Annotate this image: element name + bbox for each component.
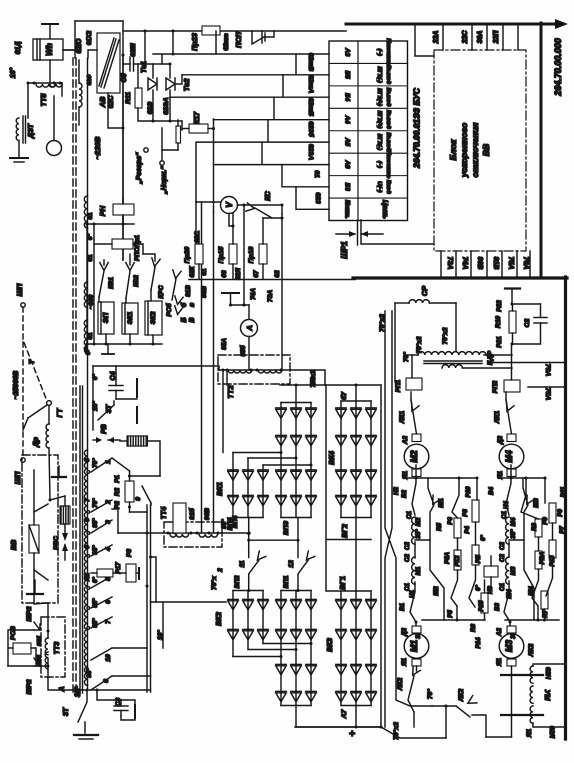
svg-text:Р5: Р5: [447, 610, 454, 618]
svg-text:62ЭА: 62ЭА: [163, 97, 170, 114]
svg-text:70°: 70°: [92, 498, 99, 508]
label Блок ускоренного отключения ВВ: [448, 123, 491, 179]
svg-text:70°х2: 70°х2: [441, 327, 449, 344]
svg-text:68: 68: [221, 270, 228, 278]
node row y344: [86, 224, 163, 346]
svg-text:90В: 90В: [204, 508, 211, 520]
svg-text:отключения: отключения: [470, 123, 480, 178]
svg-text:74А: 74А: [461, 257, 468, 270]
long verticals from ТТ2 to ТТ4: [202, 202, 214, 533]
svg-text:В1: В1: [399, 602, 406, 610]
svg-text:Ш4: Ш4: [506, 589, 513, 599]
disconnector ШП dashed: [13, 283, 47, 484]
wire down from АВ: [108, 55, 125, 260]
svg-text:Б3: Б3: [344, 183, 351, 192]
svg-text:62шг: 62шг: [223, 33, 230, 51]
svg-text:Блок: Блок: [448, 139, 458, 161]
svg-text:Б5: Б5: [344, 71, 351, 80]
svg-text:R11: R11: [125, 92, 132, 104]
svg-text:6°: 6°: [475, 585, 482, 591]
svg-text:61: 61: [201, 268, 208, 276]
svg-text:ЛК2: ЛК2: [397, 678, 404, 692]
svg-text:7: 7: [84, 498, 91, 502]
svg-text:2: 2: [217, 568, 224, 573]
svg-text:0: 0: [84, 545, 91, 549]
svg-text:ЛК1: ЛК1: [399, 411, 406, 425]
svg-text:91В: 91В: [492, 257, 499, 270]
svg-text:А6: А6: [344, 159, 351, 169]
terminal T-bar ВВ: [27, 580, 43, 594]
svg-text:ТТ5: ТТ5: [39, 93, 48, 107]
reactor БДР: [405, 350, 512, 368]
svg-text:ТТ4: ТТ4: [161, 507, 168, 520]
capacitor С5: [121, 43, 145, 83]
svg-text:61: 61: [313, 170, 320, 178]
resistor Р1 Р2: [112, 458, 160, 512]
svg-text:РВА: РВА: [539, 551, 546, 564]
svg-text:~220В: ~220В: [93, 136, 102, 159]
terminals 73А 74А 90В 91В 75А 76А: [441, 251, 530, 276]
svg-text:С1: С1: [499, 582, 506, 590]
ammeter А: [221, 293, 258, 370]
wire under ШР1 to block: [361, 220, 434, 244]
ground/terminal top-left: [42, 24, 58, 39]
resistor network block right (М4/М3): [499, 465, 559, 626]
svg-text:ВВ: ВВ: [481, 144, 491, 156]
svg-text:95б: 95б: [36, 636, 43, 646]
svg-text:11: 11: [239, 560, 246, 567]
svg-text:„Резерв“: „Резерв“: [136, 152, 143, 185]
svg-text:Пшошние: Пшошние: [385, 38, 391, 66]
coil СР: [395, 286, 456, 382]
svg-text:Р12: Р12: [454, 555, 461, 567]
svg-text:12: 12: [288, 560, 295, 568]
svg-text:62С: 62С: [108, 95, 115, 109]
svg-text:РСб: РСб: [165, 302, 173, 316]
label 70°х2 mid: [210, 568, 224, 590]
solid core pair: [80, 386, 83, 693]
svg-text:62С: 62С: [194, 231, 201, 243]
svg-text:ускоренного: ускоренного: [459, 123, 469, 178]
svg-text:30А: 30А: [477, 31, 484, 44]
relay РОВ: [8, 626, 48, 666]
svg-text:ПСП: ПСП: [234, 31, 243, 48]
svg-text:U(~): U(~): [376, 181, 382, 192]
terminal T near ВВ: [52, 466, 66, 477]
svg-text:ЛК2: ЛК2: [528, 643, 535, 657]
svg-text:Т: Т: [27, 359, 36, 364]
svg-text:РОВ: РОВ: [10, 626, 17, 640]
svg-text:R10: R10: [495, 316, 502, 328]
svg-text:Р7: Р7: [559, 526, 566, 534]
svg-text:Р17: Р17: [115, 562, 122, 574]
svg-text:62Ш: 62Ш: [130, 43, 137, 57]
capacitor С3: [97, 690, 135, 720]
svg-text:62шВ: 62шВ: [307, 53, 314, 72]
resistor Р17 Р3: [91, 509, 139, 582]
svg-text:Пшошние: Пшошние: [385, 151, 391, 179]
labels 76А 75А wires: [488, 363, 564, 401]
svg-text:ЛК1: ЛК1: [494, 411, 501, 425]
svg-text:БГ2(+): БГ2(+): [376, 111, 382, 129]
svg-text:Я1: Я1: [496, 657, 503, 667]
svg-text:(~): (~): [376, 161, 382, 168]
svg-text:4: 4: [105, 547, 112, 552]
svg-text:ГТ: ГТ: [55, 408, 64, 417]
svg-text:9: 9: [135, 497, 142, 501]
wires relay area verticals: [99, 254, 155, 303]
svg-text:Конт.: Конт.: [344, 200, 351, 219]
svg-text:95°: 95°: [92, 598, 99, 608]
svg-text:Выход: Выход: [385, 110, 391, 129]
wire y366: [93, 366, 219, 430]
svg-text:Вход: Вход: [385, 180, 391, 195]
svg-text:264.70.00.01ЭЗ БУС: 264.70.00.01ЭЗ БУС: [412, 87, 422, 169]
rectifier ВК3: [325, 540, 376, 728]
svg-text:С2: С2: [499, 541, 506, 549]
svg-text:6: 6: [84, 518, 91, 522]
transformer ТТ3: [41, 603, 65, 677]
label 70° bottom: [392, 689, 434, 740]
svg-text:ШР2: ШР2: [26, 679, 33, 694]
svg-text:УМ: УМ: [543, 689, 552, 701]
svg-text:61: 61: [87, 332, 94, 340]
wire ГТ and Др: [28, 401, 65, 502]
svg-text:Тг2: Тг2: [182, 78, 191, 92]
svg-text:С2: С2: [404, 541, 411, 549]
transformer ТТ4: [161, 503, 234, 547]
connector table БУС: [329, 38, 408, 220]
svg-text:Р10: Р10: [465, 486, 472, 498]
svg-text:ВП4: ВП4: [232, 515, 239, 528]
labels 62Э 62ЭА: [147, 97, 170, 114]
svg-text:Р13: Р13: [549, 555, 556, 567]
resistor R11: [125, 88, 142, 108]
svg-text:Wh: Wh: [45, 43, 54, 56]
svg-text:Р9: Р9: [557, 509, 564, 517]
svg-text:Пр23: Пр23: [190, 33, 199, 51]
svg-text:3: 3: [105, 520, 112, 524]
svg-text:Р3: Р3: [126, 549, 133, 558]
resistor К17: [189, 111, 208, 133]
svg-text:А2: А2: [402, 435, 409, 445]
wire: horizontal feeder y=278: [189, 278, 567, 280]
line y602 left: [151, 557, 227, 648]
svg-text:ВПЗ: ВПЗ: [283, 520, 290, 535]
switch КС: [246, 190, 282, 218]
svg-text:22А: 22А: [433, 31, 440, 45]
svg-text:ВП2: ВП2: [234, 575, 241, 588]
svg-text:А2: А2: [496, 627, 503, 636]
dashed bus pair: [73, 58, 76, 695]
svg-text:Пр20: Пр20: [184, 246, 191, 263]
svg-text:В3: В3: [494, 602, 501, 610]
svg-text:Р3: Р3: [462, 509, 469, 517]
wire from feeder down to block: [415, 24, 434, 56]
svg-text:М3: М3: [510, 566, 517, 575]
svg-text:8: 8: [84, 458, 91, 462]
svg-text:95°: 95°: [92, 618, 99, 628]
svg-text:РБ: РБ: [475, 554, 482, 563]
taps and blades lower winding: [84, 458, 112, 630]
svg-text:90В: 90В: [476, 257, 483, 270]
svg-text:ЛК2: ЛК2: [458, 689, 465, 703]
svg-text:22С: 22С: [462, 30, 469, 45]
svg-text:ЭК1: ЭК1: [127, 311, 134, 324]
svg-text:Выход: Выход: [385, 65, 391, 84]
wire: right feeder bus lower thick: [564, 277, 567, 739]
svg-text:ВГ2: ВГ2: [340, 524, 349, 538]
svg-text:ЗТ: ЗТ: [63, 707, 70, 716]
svg-text:РП2: РП2: [492, 380, 499, 393]
svg-text:75А: 75А: [544, 388, 551, 401]
rectifier ВК2: [214, 589, 313, 658]
svg-text:С1: С1: [404, 582, 411, 590]
svg-text:70°х: 70°х: [210, 576, 218, 590]
svg-text:6: 6: [105, 600, 112, 604]
label 6° and stub: [84, 344, 114, 355]
thyristor Тг1: [141, 61, 157, 90]
svg-text:Н1: Н1: [409, 589, 416, 597]
winding taps upper: [83, 196, 95, 353]
svg-text:ВВ: ВВ: [9, 540, 18, 551]
svg-text:Р11: Р11: [560, 486, 567, 497]
svg-text:ВК1: ВК1: [215, 482, 224, 496]
motor М4 with ЛК1 contact: [494, 392, 524, 480]
svg-text:С1: С1: [501, 510, 508, 518]
svg-text:Р22: Р22: [496, 300, 503, 312]
svg-text:67: 67: [253, 270, 260, 278]
labels 62шг ПСП: [223, 31, 243, 50]
wires rectifier top buses: [223, 370, 381, 453]
svg-text:91В: 91В: [185, 285, 192, 297]
svg-text:РПОПр1: РПОПр1: [134, 235, 141, 261]
labels resistor network right: [488, 486, 567, 639]
rectifier columns lower: [276, 591, 316, 728]
svg-text:264.70.00.000: 264.70.00.000: [553, 38, 563, 97]
svg-text:76А: 76А: [544, 364, 551, 377]
svg-text:Я1: Я1: [401, 657, 408, 667]
svg-text:в: в: [187, 302, 196, 307]
svg-text:РВ: РВ: [101, 424, 108, 434]
svg-text:62: 62: [274, 270, 281, 278]
svg-text:R7: R7: [542, 609, 549, 617]
wires around Wh and TT5 node row: [27, 50, 76, 118]
transformer ДЗТ: [10, 116, 35, 162]
wire: top feeder thick line with arrow: [346, 19, 568, 29]
switch ПСП: [252, 31, 274, 44]
wires К17 node: [162, 119, 215, 202]
contact К02: [126, 263, 140, 299]
svg-text:Р15: Р15: [478, 600, 485, 612]
svg-text:61Д: 61Д: [15, 42, 22, 55]
svg-text:АВ: АВ: [98, 96, 107, 108]
svg-text:ВГ1: ВГ1: [338, 576, 347, 590]
svg-text:Пр18: Пр18: [248, 246, 255, 263]
arrester box ВВ: [9, 455, 60, 603]
secondary winding lower: [84, 450, 87, 685]
svg-text:РП1: РП1: [395, 379, 402, 392]
brush bars: [501, 675, 543, 715]
svg-text:М1: М1: [409, 640, 419, 652]
resistor Р6 mid box: [484, 556, 498, 588]
svg-text:С1: С1: [406, 510, 413, 518]
terminals 22А 22С 30А 22П: [433, 25, 518, 50]
svg-text:Ш4: Ш4: [528, 586, 535, 596]
contacts Резерв Норм: [136, 148, 168, 195]
svg-text:10: 10: [105, 654, 112, 662]
rectifier columns ВПЗ upper: [232, 384, 316, 536]
svg-text:К01: К01: [108, 277, 115, 289]
rectifier ВК1: [215, 451, 313, 518]
svg-text:70°: 70°: [426, 689, 434, 700]
svg-text:(~): (~): [376, 49, 382, 56]
node row y224: [86, 223, 135, 241]
contactor box ЭК2: [145, 301, 162, 335]
rectifier ВК4: [326, 384, 376, 592]
resistor network block left (М2/М1): [404, 465, 488, 626]
svg-text:22П: 22П: [493, 30, 500, 45]
svg-text:70°х2: 70°х2: [415, 336, 423, 353]
motor М2 with ЛК1 contact: [399, 392, 429, 480]
svg-text:ВК2: ВК2: [214, 612, 223, 626]
thyristor Тг2: [166, 75, 191, 92]
relay РВ arrows: [93, 424, 120, 443]
contact ЛК2 left: [397, 676, 414, 727]
svg-text:62Ю: 62Ю: [76, 38, 83, 53]
wires staircase into table rows: [153, 31, 329, 209]
svg-text:ШП: ШП: [13, 471, 22, 484]
fuse Пр15: [218, 213, 237, 279]
svg-text:70°: 70°: [92, 458, 99, 468]
svg-text:35°: 35°: [415, 529, 422, 539]
svg-text:95А: 95А: [221, 338, 228, 350]
svg-text:+: +: [349, 728, 355, 740]
svg-text:ДЗТ: ДЗТ: [26, 123, 35, 139]
transformer ТТ2: [218, 355, 325, 399]
switch ЗТ bottom with ground: [63, 690, 151, 739]
connector ШР1 arrows: [336, 220, 383, 245]
svg-text:62шБ: 62шБ: [307, 98, 314, 117]
svg-text:РВС: РВС: [53, 536, 60, 550]
svg-text:Цепь: Цепь: [381, 200, 390, 220]
labels resistor network left: [393, 486, 494, 649]
svg-text:ШР2: ШР2: [26, 606, 33, 621]
svg-text:К02: К02: [133, 275, 140, 287]
label А7 plus: [341, 708, 358, 740]
svg-text:ВК4: ВК4: [327, 451, 336, 465]
svg-text:16°: 16°: [73, 687, 81, 698]
svg-text:Р14: Р14: [475, 637, 482, 649]
svg-text:ТТ3: ТТ3: [54, 642, 61, 655]
crossing wires to lower blocks: [295, 311, 446, 738]
svg-text:Выход: Выход: [385, 132, 391, 151]
svg-text:Н4: Н4: [503, 500, 510, 508]
svg-text:В2: В2: [401, 489, 408, 497]
svg-text:75А: 75А: [507, 257, 514, 270]
svg-text:Д2: Д2: [497, 435, 504, 445]
svg-text:6°: 6°: [91, 374, 99, 381]
wires РП coils: [395, 344, 520, 393]
svg-text:А5: А5: [344, 137, 351, 147]
lamp circle: [47, 96, 62, 156]
svg-text:62Ф: 62Ф: [87, 74, 93, 85]
svg-text:ВК3: ВК3: [325, 638, 334, 652]
svg-text:R5: R5: [436, 522, 443, 530]
svg-text:Р4: Р4: [464, 526, 471, 534]
fuse Пр18: [248, 218, 267, 279]
svg-text:РН: РН: [98, 205, 107, 216]
svg-text:М1: М1: [415, 566, 422, 575]
taps 10 8 bottom: [74, 648, 112, 696]
relay РН: [98, 199, 134, 224]
labels А 16°: [57, 686, 81, 697]
winding УМ: [526, 664, 566, 738]
svg-text:Н2: Н2: [393, 486, 400, 494]
double bus down: [112, 505, 152, 692]
svg-text:ШР1: ШР1: [340, 241, 349, 258]
svg-text:ЭП: ЭП: [101, 312, 110, 323]
svg-text:ВП1: ВП1: [283, 575, 290, 588]
svg-text:62К: 62К: [189, 265, 196, 277]
svg-text:А4: А4: [344, 114, 351, 124]
contactor box ЭК1: [122, 303, 138, 334]
svg-text:СР: СР: [420, 286, 429, 296]
svg-text:Я1: Я1: [526, 728, 533, 738]
svg-text:61: 61: [87, 212, 94, 220]
svg-text:16°: 16°: [91, 401, 99, 411]
svg-text:Д2: Д2: [401, 627, 408, 636]
svg-text:В: В: [187, 317, 196, 322]
relay coil РПО: [94, 235, 143, 261]
fuse Пр23: [190, 26, 220, 51]
svg-text:Ш1: Ш1: [438, 498, 445, 508]
svg-text:БГ1(+): БГ1(+): [376, 88, 382, 106]
winding spine: [86, 30, 93, 690]
svg-text:М4: М4: [510, 517, 517, 526]
svg-text:R8: R8: [531, 522, 538, 530]
svg-text:ШП: ШП: [15, 283, 24, 296]
svg-text:R2: R2: [114, 487, 121, 496]
svg-text:Ш2: Ш2: [433, 586, 440, 596]
wires thyristor area: [122, 30, 347, 131]
svg-text:70: 70: [310, 377, 317, 385]
svg-text:Я1: Я1: [84, 572, 91, 582]
wire top connections: [63, 21, 123, 260]
wires under V: [214, 202, 284, 370]
svg-text:6°: 6°: [480, 535, 487, 541]
bottom bus of rectifiers: [296, 726, 381, 728]
motor М1: [401, 626, 429, 677]
svg-text:БГ1(-): БГ1(-): [376, 66, 382, 82]
svg-text:61Х2: 61Х2: [86, 30, 93, 45]
svg-text:А7: А7: [341, 708, 348, 719]
svg-text:Ш3: Ш3: [533, 498, 540, 508]
svg-text:М2: М2: [415, 517, 422, 526]
switch ЗТ upper: [91, 401, 137, 423]
svg-text:Р2: Р2: [114, 501, 121, 509]
svg-text:Р21: Р21: [496, 336, 503, 348]
labels 70°х2 70°: [378, 314, 449, 362]
contact К01: [99, 263, 115, 298]
svg-text:7ЗА: 7ЗА: [267, 289, 274, 302]
svg-text:С5: С5: [121, 73, 128, 82]
svg-text:62Я: 62Я: [548, 726, 555, 738]
svg-text:М4: М4: [504, 450, 514, 462]
svg-text:б7: б7: [340, 392, 348, 400]
svg-text:35°: 35°: [510, 529, 517, 539]
voltmeter V: [196, 197, 284, 246]
